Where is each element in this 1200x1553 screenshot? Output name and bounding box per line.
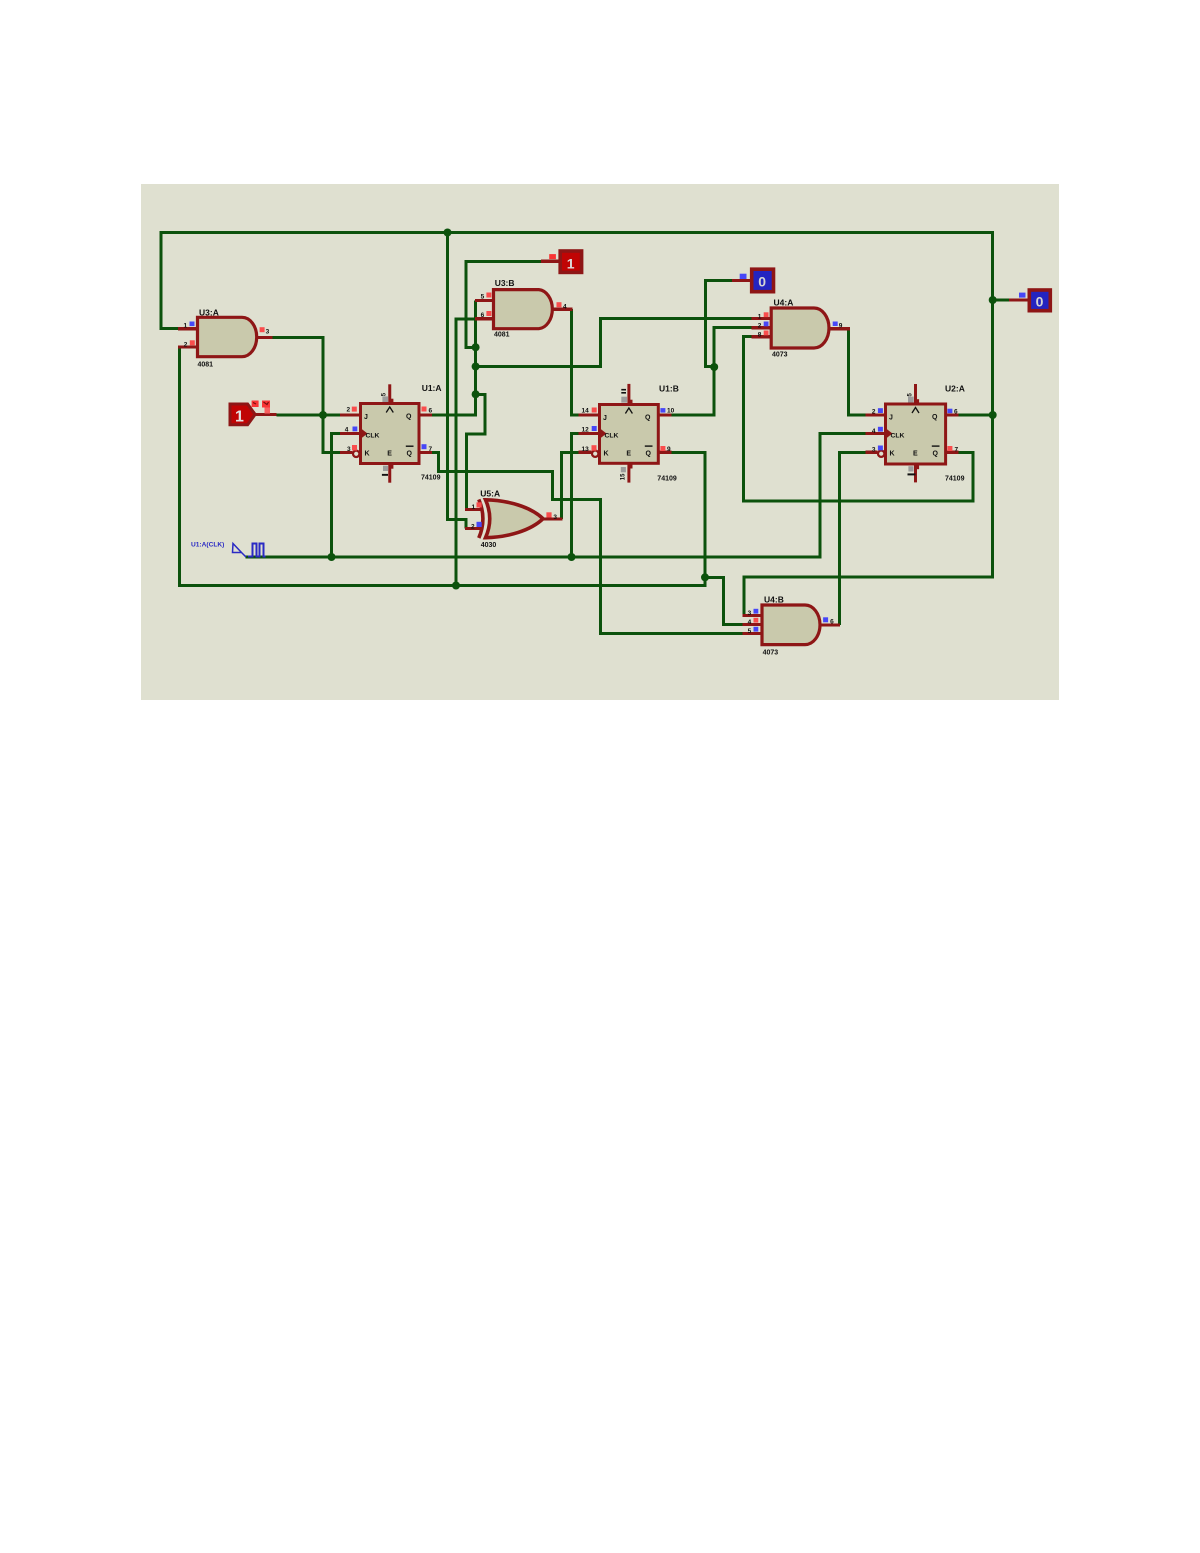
pin stub U1:B CLK <box>579 432 600 435</box>
svg-text:4: 4 <box>563 304 567 311</box>
wire: DCLOCK bus to U2:A CLK <box>245 434 865 558</box>
svg-text:2: 2 <box>347 407 351 414</box>
svg-text:0: 0 <box>758 274 766 290</box>
svg-text:2: 2 <box>471 523 475 530</box>
wire: U1:B CLK from DCLOCK bus <box>572 434 579 558</box>
junction: right rail / U2:A Q <box>989 411 997 419</box>
svg-text:J: J <box>364 414 368 421</box>
svg-text:0: 0 <box>1036 294 1044 310</box>
wire: logic state 1 to U1:A J <box>277 414 341 417</box>
junction: top bus / U5:A pin2 drop <box>444 229 452 237</box>
pin stub U1:B J <box>579 413 600 416</box>
svg-text:2: 2 <box>184 341 188 348</box>
svg-text:14: 14 <box>582 407 590 414</box>
junction: U1:B Q-bar node <box>701 573 709 581</box>
wire: U1:A CLK from DCLOCK bus <box>332 434 341 558</box>
U1:A pin number 7 (Q-bar) <box>422 444 427 449</box>
pin stub U1:A CLK <box>340 432 361 435</box>
wire: U3:A output down to U1:A J node and K input <box>272 338 341 453</box>
svg-text:1: 1 <box>758 313 762 320</box>
pin stub U4:B.4 <box>743 623 763 626</box>
wire: node to logic probe 0 top <box>705 281 732 367</box>
svg-text:7: 7 <box>429 446 433 453</box>
pin stub U1:A J <box>340 413 361 416</box>
wire: node to logic probe 1 <box>466 261 541 347</box>
junction: right rail / probe 0 <box>989 296 997 304</box>
svg-text:6: 6 <box>954 408 958 415</box>
pin stub U5:A.2 <box>465 527 483 530</box>
svg-text:U4:A: U4:A <box>774 297 794 307</box>
AND gate U4:A (4073, 3-input) <box>758 297 843 358</box>
svg-text:4030: 4030 <box>481 542 497 549</box>
svg-text:Q: Q <box>407 451 413 458</box>
svg-text:4073: 4073 <box>763 650 779 657</box>
svg-text:U5:A: U5:A <box>480 489 500 499</box>
wire: U1:A Q-bar to U4:B pin 5 <box>432 453 743 634</box>
wire: right rail to logic probe 0 right <box>993 299 1009 302</box>
U1:B pin number 10 (Q) <box>660 408 665 413</box>
svg-text:15: 15 <box>621 473 627 480</box>
svg-text:6: 6 <box>481 312 485 319</box>
svg-text:U4:B: U4:B <box>764 595 784 605</box>
pin stub probe 1 top <box>541 260 560 263</box>
svg-text:U1:B: U1:B <box>659 384 679 394</box>
junction: U1:A Q / U5:A pin1 tap <box>472 390 480 398</box>
wire: U2:A Q to right rail <box>959 414 993 417</box>
wire: U3:B output down to U1:B J <box>572 309 579 415</box>
pin stub U2:A Q-bar <box>946 451 959 454</box>
pin stub U3:A.1 <box>178 327 198 330</box>
pin stub U4:A.8 <box>752 335 772 338</box>
junction: bottom bus / U3:B pin6 drop <box>452 582 460 590</box>
wire: top bus junction down to U5:A pin 2 <box>448 231 467 529</box>
junction: U4:A pin1 tap <box>472 363 480 371</box>
junction: probe 1 tap <box>472 343 480 351</box>
AND gate U3:B (4081) <box>481 278 567 339</box>
wire: right rail down and to U4:B pin 3 <box>744 231 993 616</box>
svg-text:CLK: CLK <box>605 433 619 440</box>
pin stub U3:A.2 <box>178 345 198 348</box>
pin stub logic state 1 <box>254 413 277 416</box>
pin stub U4:B.3 <box>743 614 763 617</box>
svg-text:3: 3 <box>553 514 557 521</box>
pin stub U5:A.1 <box>465 508 483 511</box>
wire: U5:A output up to U1:B K <box>562 452 579 519</box>
svg-text:9: 9 <box>839 323 843 330</box>
svg-text:74109: 74109 <box>421 475 441 482</box>
junction: DCLOCK / U1:A CLK <box>328 553 336 561</box>
pin stub U3:B.5 <box>475 299 494 302</box>
wire: U3:B pin 6 down to bottom bus <box>456 319 475 586</box>
svg-text:5: 5 <box>748 628 752 635</box>
pin stub U2:A J <box>866 413 886 416</box>
logic probe 1 (top) <box>549 251 581 272</box>
svg-text:12: 12 <box>582 426 590 433</box>
svg-text:2: 2 <box>872 409 876 416</box>
svg-text:U2:A: U2:A <box>945 384 965 394</box>
wire: U1:A Q up to U3:B pin5 node <box>432 394 476 415</box>
wire: U4:A output down to U2:A J <box>848 329 865 415</box>
pin stub probe 0 left <box>732 279 752 282</box>
pin stub U2:A K <box>866 451 878 454</box>
svg-text:74109: 74109 <box>945 476 965 483</box>
DCLOCK generator U1:A(CLK) <box>191 541 266 557</box>
svg-text:U1:A(CLK): U1:A(CLK) <box>191 541 224 548</box>
wire: left rail down to U3:A pin 1 <box>161 231 179 329</box>
pin stub U2:A Q <box>946 413 959 416</box>
svg-text:5: 5 <box>481 294 485 301</box>
pin stub U5:A.3 out <box>543 517 563 520</box>
pin stub U1:A K <box>340 451 353 454</box>
svg-text:Q: Q <box>932 414 938 421</box>
svg-text:6: 6 <box>429 408 433 415</box>
svg-text:J: J <box>603 415 607 422</box>
svg-text:1: 1 <box>184 323 188 330</box>
svg-text:U3:A: U3:A <box>199 308 219 318</box>
svg-text:3: 3 <box>748 610 752 617</box>
pin stub U1:B Q <box>658 413 671 416</box>
wire: U3:A pin 2 down to bottom bus, bottom bus to node under U1:B <box>180 347 706 586</box>
pin stub U4:B.5 <box>743 632 763 635</box>
wire: U2:A Q-bar to U4:A pin 8 <box>744 337 973 501</box>
svg-text:4081: 4081 <box>494 332 510 339</box>
pin stub U1:A Q <box>419 413 432 416</box>
junction: U3:A out / state 1 / U1:A J,K <box>319 411 327 419</box>
svg-text:1: 1 <box>472 504 476 511</box>
JK flip-flop U1:B (74109) <box>582 384 679 483</box>
wire: node jog to U5:A pin 1 <box>467 394 486 509</box>
wire: U3:B pin 5 node vertical <box>474 301 477 395</box>
wire: U1:B Q-bar down to node and U4:B pin 4 <box>671 452 742 624</box>
svg-text:1: 1 <box>235 409 244 426</box>
pin stub probe 0 right <box>1009 298 1029 301</box>
U2:A pin number 6 (Q) <box>947 409 952 414</box>
U2:A pin number 7 (Q-bar) <box>947 446 952 451</box>
wire: node to U4:A pin 1 <box>476 319 752 367</box>
pin stub U3:B.6 <box>475 317 494 320</box>
pin stub U3:A.3 out <box>257 336 273 339</box>
svg-text:Q: Q <box>645 415 651 422</box>
svg-text:CLK: CLK <box>366 433 380 440</box>
junction: DCLOCK / U1:B CLK <box>568 553 576 561</box>
svg-text:13: 13 <box>582 446 590 453</box>
pin stub U2:A CLK <box>866 432 886 435</box>
svg-text:E: E <box>913 450 918 457</box>
svg-text:J: J <box>889 415 893 422</box>
svg-text:3: 3 <box>872 447 876 454</box>
AND gate U4:B (4073, 3-input) <box>748 595 835 657</box>
svg-text:K: K <box>604 450 609 457</box>
pin stub U4:A.1 <box>752 317 772 320</box>
AND gate U3:A (4081) <box>184 308 270 369</box>
pin stub U4:B.6 out <box>821 623 840 626</box>
svg-text:4: 4 <box>872 428 876 435</box>
pin stub U4:A.9 out <box>829 327 850 330</box>
logic state 1 input tag <box>230 401 270 426</box>
wire: top bus from U3:A pin1 rail to right rail <box>161 231 993 234</box>
svg-text:74109: 74109 <box>657 476 677 483</box>
svg-text:1: 1 <box>567 256 575 272</box>
svg-text:4073: 4073 <box>772 352 788 359</box>
svg-text:E: E <box>626 450 631 457</box>
svg-text:CLK: CLK <box>891 433 905 440</box>
pin stub U1:B Q-bar <box>658 451 671 454</box>
pin stub U3:B.4 out <box>553 308 572 311</box>
pin stub U1:A Q-bar <box>419 451 432 454</box>
svg-text:K: K <box>365 451 370 458</box>
svg-text:Q: Q <box>646 450 652 457</box>
svg-text:3: 3 <box>266 328 270 335</box>
junction: U1:B Q / probe tap <box>710 363 718 371</box>
U1:B pin number 9 (Q-bar) <box>660 446 665 451</box>
pin stub U4:A.2 <box>752 326 772 329</box>
U1:A pin number 6 (Q) <box>422 407 427 412</box>
svg-text:2: 2 <box>758 323 762 330</box>
svg-text:K: K <box>890 450 895 457</box>
logic probe 0 (top left) <box>740 269 774 292</box>
svg-text:10: 10 <box>667 408 675 415</box>
svg-text:U1:A: U1:A <box>422 383 442 393</box>
wire: U1:B Q to U4:A pin 2 <box>671 328 751 415</box>
svg-text:Q: Q <box>933 450 939 457</box>
logic probe 0 (right) <box>1019 290 1050 311</box>
svg-text:Q: Q <box>406 414 412 421</box>
svg-text:8: 8 <box>758 332 762 339</box>
svg-text:3: 3 <box>347 446 351 453</box>
svg-text:4081: 4081 <box>198 362 214 369</box>
wire: U4:B output up to U2:A K <box>840 452 866 625</box>
pin stub U1:B K <box>579 451 592 454</box>
JK flip-flop U2:A (74109) <box>872 384 965 483</box>
svg-text:4: 4 <box>748 619 752 626</box>
svg-text:U3:B: U3:B <box>495 278 515 288</box>
svg-text:6: 6 <box>830 618 834 625</box>
svg-text:4: 4 <box>345 427 349 434</box>
svg-text:9: 9 <box>667 446 671 453</box>
JK flip-flop U1:A (74109) <box>345 383 442 483</box>
svg-text:E: E <box>387 451 392 458</box>
XOR gate U5:A (4030) <box>471 489 557 549</box>
schematic sheet background <box>141 184 1059 700</box>
svg-text:7: 7 <box>955 446 959 453</box>
